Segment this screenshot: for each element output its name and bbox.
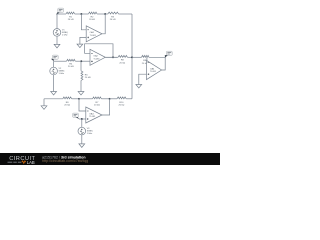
ground OA4 plus	[136, 85, 142, 89]
wire OA3 output riser	[102, 99, 110, 115]
resistor R7	[79, 98, 93, 100]
wire V1 to ground	[56, 36, 58, 44]
svg-text:1 kHz: 1 kHz	[87, 133, 93, 135]
watermark bar	[0, 153, 220, 165]
net label flag OUT	[166, 51, 172, 55]
resistor R10	[110, 98, 117, 100]
resistor R9	[132, 56, 142, 58]
svg-text:TL081: TL081	[90, 35, 97, 37]
wire OA3 inverting input	[79, 99, 86, 111]
svg-text:LAB: LAB	[27, 160, 35, 165]
wire left ground drop	[43, 99, 45, 106]
svg-text:TL081: TL081	[150, 71, 157, 73]
op-amp OA1	[86, 26, 102, 42]
svg-text:R6: R6	[66, 102, 70, 104]
resistor R4	[54, 60, 67, 62]
wire V2 to ground	[53, 75, 55, 92]
junction node X row	[131, 56, 133, 58]
voltage source V2	[50, 67, 58, 75]
svg-text:TL081: TL081	[93, 59, 100, 61]
wire OA2 feedback loop	[85, 44, 113, 58]
ground bottom left	[41, 106, 47, 110]
svg-text:http://circuitlab.com/c7sw9qg: http://circuitlab.com/c7sw9qg	[42, 159, 88, 163]
op-amp OA3	[86, 107, 102, 123]
wire OA2 output	[105, 56, 117, 58]
svg-text:20 kΩ: 20 kΩ	[85, 77, 91, 79]
svg-text:OA1: OA1	[90, 31, 95, 34]
wire V2 top riser	[53, 61, 55, 67]
net label flag NODE1	[58, 8, 64, 12]
junction V3 node	[81, 118, 83, 120]
svg-text:R8: R8	[121, 60, 125, 62]
wire OA1 output riser	[102, 14, 105, 34]
wire V1 top riser	[56, 14, 58, 29]
svg-text:20 kΩ: 20 kΩ	[110, 19, 116, 21]
junction OA2 feedback-output	[112, 56, 114, 58]
svg-text:20 kΩ: 20 kΩ	[89, 19, 95, 21]
ground under R5	[78, 92, 84, 96]
svg-text:R5: R5	[85, 74, 89, 76]
ground under V2	[51, 92, 57, 96]
resistor R6	[44, 98, 63, 100]
svg-text:OA4: OA4	[150, 67, 155, 70]
wire node X vertical	[131, 14, 133, 99]
svg-text:OA3: OA3	[89, 112, 94, 115]
resistor R8	[105, 56, 118, 58]
svg-text:R4: R4	[69, 63, 73, 65]
resistor R1	[57, 13, 66, 15]
resistor R5	[80, 61, 82, 71]
svg-text:OA2: OA2	[93, 55, 98, 58]
svg-text:R3: R3	[111, 16, 115, 18]
svg-text:20 kΩ: 20 kΩ	[94, 105, 100, 107]
ground OA1 plus	[77, 44, 83, 48]
wire V3 top riser	[81, 119, 83, 127]
svg-text:TL081: TL081	[89, 116, 96, 118]
resistor R2	[81, 13, 88, 15]
wire OA1 noninverting to ground	[80, 37, 86, 44]
CircuitLab logo	[0, 153, 220, 165]
svg-text:R7: R7	[96, 102, 100, 104]
junction OA3 output node	[109, 98, 111, 100]
junction R2-R3 node	[104, 13, 106, 15]
op-amp OA4	[147, 60, 162, 79]
svg-text:20 kΩ: 20 kΩ	[119, 62, 125, 64]
net label flag NODE3	[73, 113, 79, 117]
junction R6-R7 node	[78, 98, 80, 100]
svg-text:20 kΩ: 20 kΩ	[64, 105, 70, 107]
svg-text:1 kHz: 1 kHz	[62, 34, 68, 36]
svg-text:20 kΩ: 20 kΩ	[119, 105, 125, 107]
wire OA1 inverting input	[81, 14, 86, 30]
ground under V3	[79, 144, 85, 148]
svg-text:R1: R1	[69, 16, 73, 18]
net label flag NODE2	[52, 55, 58, 59]
voltage source V1	[53, 29, 61, 37]
wire OA3 noninverting row	[79, 118, 86, 120]
resistor R3	[105, 13, 108, 15]
wire OA4 noninverting to ground	[139, 74, 147, 84]
svg-text:R10: R10	[119, 102, 124, 104]
op-amp OA2	[90, 49, 105, 65]
junction R4-R5 node	[80, 60, 82, 62]
svg-text:20 kΩ: 20 kΩ	[68, 19, 74, 21]
ground under V1	[54, 44, 60, 48]
junction R1-R2 node	[80, 13, 82, 15]
wire V3 to ground	[81, 135, 83, 144]
wire to OA2 noninverting input	[81, 60, 90, 62]
voltage source V3	[78, 127, 86, 135]
svg-text:1 kHz: 1 kHz	[59, 73, 65, 75]
wire OA4 output riser	[162, 57, 166, 70]
wire OA4 inverting input drop	[146, 57, 148, 61]
svg-text:20 kΩ: 20 kΩ	[68, 66, 74, 68]
svg-text:R2: R2	[91, 16, 95, 18]
